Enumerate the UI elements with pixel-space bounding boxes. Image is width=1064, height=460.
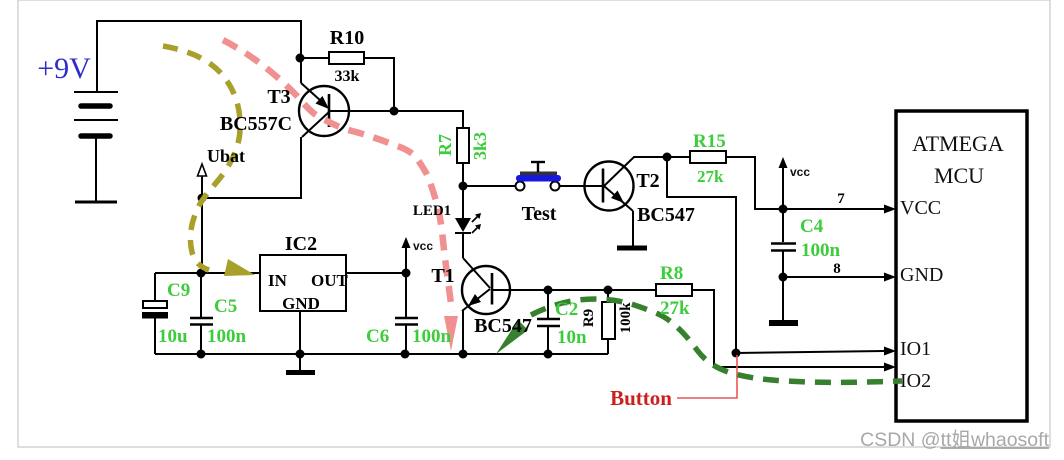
- svg-text:T3: T3: [267, 86, 290, 108]
- svg-text:BC547: BC547: [637, 204, 695, 226]
- svg-text:ATMEGA: ATMEGA: [912, 131, 1004, 156]
- svg-text:BC547: BC547: [474, 315, 532, 337]
- svg-text:LED1: LED1: [413, 203, 451, 219]
- svg-text:100k: 100k: [618, 302, 634, 334]
- svg-text:T2: T2: [636, 170, 659, 192]
- svg-text:7: 7: [837, 191, 845, 207]
- svg-text:+9V: +9V: [37, 52, 91, 85]
- svg-text:vcc: vcc: [413, 239, 433, 253]
- svg-text:C5: C5: [214, 296, 237, 317]
- svg-text:IO1: IO1: [900, 338, 931, 360]
- svg-text:Ubat: Ubat: [207, 146, 245, 166]
- svg-text:10u: 10u: [158, 326, 188, 347]
- svg-text:8: 8: [833, 261, 841, 277]
- svg-text:C2: C2: [555, 299, 578, 320]
- svg-text:R15: R15: [693, 131, 726, 152]
- svg-text:IC2: IC2: [285, 233, 317, 255]
- svg-text:Test: Test: [522, 203, 557, 225]
- svg-text:100n: 100n: [801, 240, 841, 261]
- svg-text:Button: Button: [610, 386, 672, 410]
- svg-text:R9: R9: [581, 309, 597, 327]
- svg-text:vcc: vcc: [790, 165, 810, 179]
- svg-text:GND: GND: [282, 294, 320, 313]
- svg-text:BC557C: BC557C: [220, 113, 292, 135]
- svg-text:T1: T1: [431, 265, 454, 287]
- svg-text:33k: 33k: [335, 68, 360, 85]
- svg-text:C4: C4: [800, 216, 824, 237]
- svg-text:CSDN @tt姐whaosoft: CSDN @tt姐whaosoft: [860, 429, 1049, 451]
- svg-text:10n: 10n: [557, 327, 587, 348]
- svg-text:VCC: VCC: [900, 197, 941, 219]
- svg-text:100n: 100n: [412, 326, 452, 347]
- svg-text:27k: 27k: [697, 167, 724, 186]
- svg-text:R10: R10: [330, 27, 364, 49]
- svg-text:C6: C6: [366, 326, 389, 347]
- svg-text:C9: C9: [167, 280, 190, 301]
- svg-text:IN: IN: [268, 271, 288, 290]
- svg-text:3k3: 3k3: [470, 132, 490, 160]
- svg-text:OUT: OUT: [311, 271, 349, 290]
- svg-text:MCU: MCU: [934, 163, 984, 188]
- svg-text:R8: R8: [660, 263, 683, 284]
- svg-text:27k: 27k: [660, 298, 690, 319]
- svg-text:100n: 100n: [207, 326, 247, 347]
- svg-text:IO2: IO2: [900, 370, 931, 392]
- svg-text:R7: R7: [435, 134, 455, 156]
- svg-text:GND: GND: [900, 264, 943, 286]
